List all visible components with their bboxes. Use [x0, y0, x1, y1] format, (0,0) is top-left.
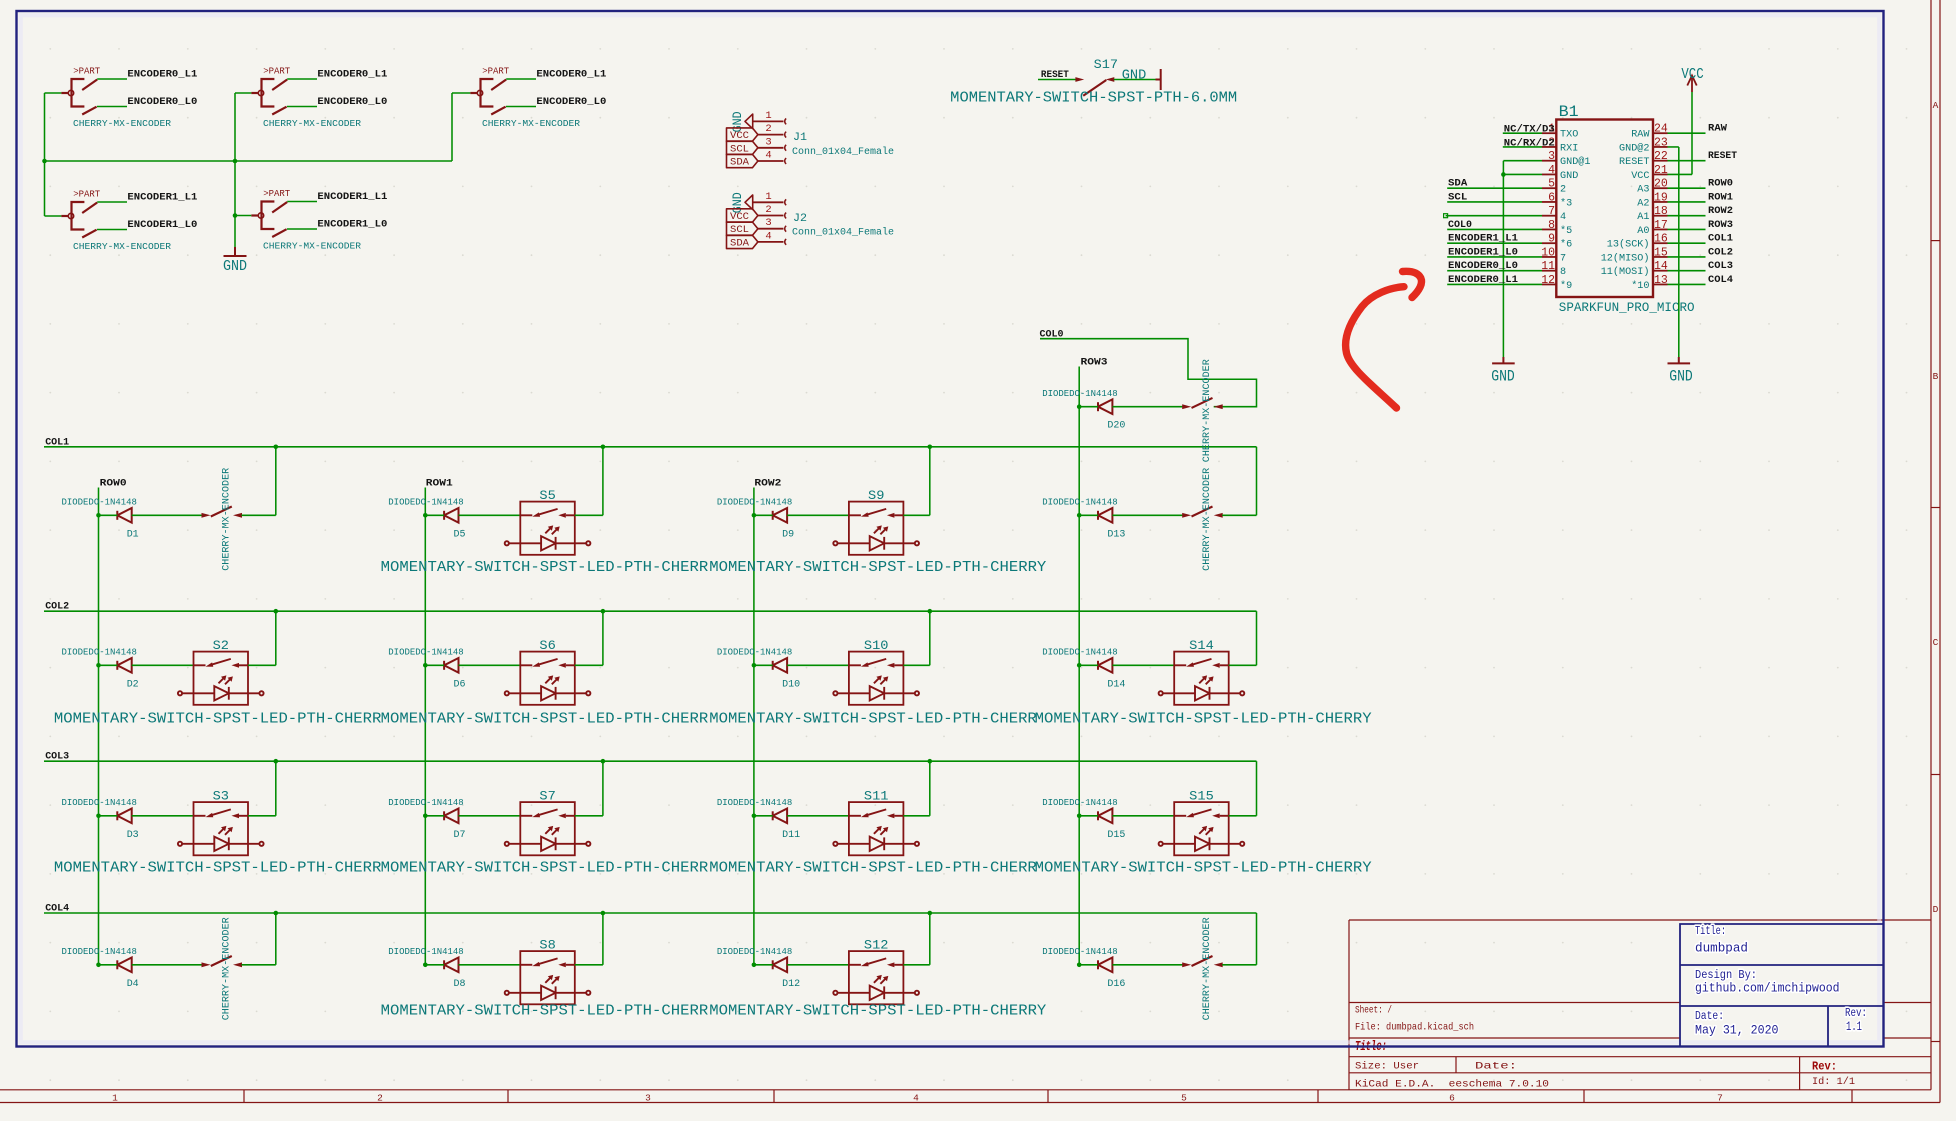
wire ENCODER1_L1 — [1447, 242, 1542, 244]
wire riser COL4 x3 — [1256, 913, 1258, 965]
svg-text:>PART: >PART — [263, 188, 290, 199]
svg-text:DIODEDO-1N4148: DIODEDO-1N4148 — [1042, 647, 1117, 658]
svg-text:>PART: >PART — [73, 66, 100, 77]
ground symbol B1 right GND — [1668, 357, 1691, 363]
svg-text:MOMENTARY-SWITCH-SPST-LED-PTH-: MOMENTARY-SWITCH-SPST-LED-PTH-CHERR — [381, 1003, 709, 1020]
svg-text:GND@1: GND@1 — [1560, 156, 1591, 168]
svg-text:ROW1: ROW1 — [426, 479, 453, 490]
svg-text:D8: D8 — [454, 979, 466, 990]
switch S10 body — [849, 652, 904, 705]
diode D2 — [117, 658, 131, 673]
junction ROW2 D12 — [752, 963, 757, 968]
wire encoder SW1 feed — [45, 92, 62, 94]
wire ROW2 vertical — [753, 488, 755, 965]
svg-text:Title:: Title: — [1695, 925, 1726, 938]
switch S15 body — [1174, 802, 1229, 855]
junction COL3 riser 2 — [928, 759, 933, 764]
wire RAW at B1 — [1668, 132, 1706, 134]
wire encoder SW5 feed — [235, 215, 251, 217]
junction ROW1 D7 — [423, 814, 428, 819]
svg-text:J2: J2 — [793, 213, 807, 225]
wire pin4 GND — [1503, 173, 1542, 175]
svg-text:SDA: SDA — [730, 238, 749, 249]
wire switch S8 to riser — [575, 964, 603, 966]
svg-text:DIODEDO-1N4148: DIODEDO-1N4148 — [62, 647, 137, 658]
wire ENCODER0_L0 — [1447, 270, 1542, 272]
wire D9 anode to switch — [787, 514, 849, 516]
svg-text:MOMENTARY-SWITCH-SPST-LED-PTH-: MOMENTARY-SWITCH-SPST-LED-PTH-CHERRY — [1035, 860, 1372, 877]
wire switch S10 to riser — [903, 664, 929, 666]
wire to label ENCODER1_L1 — [287, 201, 317, 203]
svg-text:S6: S6 — [539, 638, 555, 653]
switch S2 contacts — [194, 659, 249, 668]
svg-text:>PART: >PART — [73, 189, 100, 200]
switch S6 led — [505, 675, 591, 700]
svg-text:RAW: RAW — [1708, 124, 1727, 135]
svg-text:3: 3 — [765, 136, 771, 148]
svg-text:4: 4 — [1560, 211, 1566, 223]
wire D1 cathode — [99, 514, 118, 516]
wire riser COL3 x1 — [602, 761, 604, 816]
svg-text:S8: S8 — [539, 937, 555, 952]
switch S12 contacts — [849, 958, 904, 967]
svg-text:S10: S10 — [864, 638, 889, 653]
wire switch S9 to riser — [903, 514, 929, 516]
svg-text:ROW2: ROW2 — [1708, 206, 1733, 217]
wire COL1 horizontal — [44, 446, 1257, 448]
wire D8 anode to switch — [459, 964, 521, 966]
switch S9 contacts — [849, 509, 904, 518]
svg-text:10: 10 — [1541, 246, 1555, 259]
svg-text:Conn_01x04_Female: Conn_01x04_Female — [792, 227, 894, 239]
svg-text:6: 6 — [1449, 1092, 1455, 1103]
wire encoder mid vertical — [234, 93, 236, 247]
svg-text:A: A — [1933, 100, 1939, 111]
svg-text:SPARKFUN_PRO_MICRO: SPARKFUN_PRO_MICRO — [1559, 301, 1695, 315]
svg-text:D11: D11 — [782, 830, 800, 841]
svg-text:D3: D3 — [127, 830, 139, 841]
svg-text:19: 19 — [1654, 191, 1668, 204]
svg-text:ENCODER1_L0: ENCODER1_L0 — [127, 220, 197, 231]
svg-text:MOMENTARY-SWITCH-SPST-LED-PTH-: MOMENTARY-SWITCH-SPST-LED-PTH-CHERR — [381, 860, 709, 877]
svg-text:DIODEDO-1N4148: DIODEDO-1N4148 — [1042, 797, 1117, 808]
wire switch S2 to riser — [248, 664, 276, 666]
svg-text:GND: GND — [1669, 368, 1693, 386]
ic B1 right pin 18 A1 — [1653, 215, 1668, 217]
svg-text:RAW: RAW — [1631, 129, 1650, 141]
junction encoder SW5 feed — [233, 213, 238, 218]
svg-text:J1: J1 — [793, 132, 807, 144]
sheet frame right outer line — [1939, 0, 1941, 1103]
ic B1 left pin 11 8 — [1542, 270, 1556, 272]
switch S9 body — [849, 502, 904, 555]
ic B1 left pin 1 TXO — [1542, 132, 1556, 134]
sheet frame column ticks bottom — [243, 1090, 245, 1103]
svg-text:8: 8 — [1548, 219, 1555, 232]
svg-text:ROW2: ROW2 — [754, 479, 781, 490]
svg-text:DIODEDO-1N4148: DIODEDO-1N4148 — [1042, 946, 1117, 957]
wire COL0 B1 — [1447, 228, 1542, 230]
ground symbol B1 left GND — [1492, 357, 1515, 363]
ic B1 right pin 16 13(SCK) — [1653, 242, 1668, 244]
svg-text:4: 4 — [913, 1092, 919, 1103]
svg-text:16: 16 — [1654, 233, 1668, 246]
wire D14 cathode — [1079, 664, 1098, 666]
svg-text:CHERRY-MX-ENCODER: CHERRY-MX-ENCODER — [1202, 468, 1213, 571]
wire D4 cathode — [99, 964, 118, 966]
svg-text:COL4: COL4 — [1708, 275, 1733, 286]
svg-text:4: 4 — [1548, 164, 1555, 177]
connector J2 pin 3 — [758, 228, 784, 230]
svg-text:CHERRY-MX-ENCODER: CHERRY-MX-ENCODER — [1202, 917, 1213, 1020]
connector J1 pin 3 — [758, 147, 784, 149]
wire encoder switch to riser — [242, 964, 276, 966]
wire SDA — [1447, 187, 1542, 189]
svg-text:D7: D7 — [454, 830, 466, 841]
svg-text:GND: GND — [730, 111, 745, 132]
blue title box background — [1680, 924, 1884, 1047]
svg-text:ENCODER0_L0: ENCODER0_L0 — [127, 97, 197, 108]
wire switch S5 to riser — [575, 514, 603, 516]
svg-text:D10: D10 — [782, 679, 800, 690]
ic B1 left pin 8 *5 — [1542, 228, 1556, 230]
wire D10 cathode — [754, 664, 773, 666]
switch S7 contacts — [520, 809, 575, 818]
svg-text:SDA: SDA — [730, 158, 749, 169]
switch S7 led — [505, 826, 591, 851]
svg-text:Rev:: Rev: — [1812, 1061, 1837, 1074]
wire switch S14 to riser — [1229, 664, 1257, 666]
svg-text:S15: S15 — [1189, 788, 1214, 803]
encoder matrix switch contacts D20cell — [1182, 398, 1223, 409]
svg-text:7: 7 — [1548, 205, 1555, 218]
junction ROW3 D13 — [1077, 513, 1082, 518]
junction COL1 riser 0 — [274, 445, 279, 450]
wire D13 cathode — [1079, 514, 1098, 516]
wire RESET to S17 — [1038, 79, 1076, 81]
wire D15 anode to switch — [1112, 815, 1174, 817]
encoder matrix switch contacts D1cell — [202, 507, 243, 518]
svg-text:TXO: TXO — [1560, 129, 1578, 141]
svg-text:Date:: Date: — [1475, 1061, 1517, 1073]
svg-text:23: 23 — [1654, 136, 1668, 149]
switch S10 contacts — [849, 659, 904, 668]
wire D12 anode to switch — [787, 964, 849, 966]
svg-text:3: 3 — [645, 1092, 651, 1103]
junction COL2 riser 0 — [274, 609, 279, 614]
connector J2 global label SDA — [727, 235, 758, 248]
svg-text:D13: D13 — [1107, 529, 1125, 540]
svg-text:*3: *3 — [1560, 197, 1572, 209]
junction COL4 riser 1 — [601, 911, 606, 916]
junction ROW0 D2 — [96, 663, 101, 668]
svg-text:COL2: COL2 — [1708, 247, 1733, 258]
svg-text:DIODEDO-1N4148: DIODEDO-1N4148 — [388, 797, 463, 808]
wire D20 row junction wire — [1079, 406, 1098, 408]
svg-text:S11: S11 — [864, 788, 889, 803]
svg-text:22: 22 — [1654, 150, 1668, 163]
svg-text:B1: B1 — [1559, 103, 1579, 121]
svg-text:21: 21 — [1654, 164, 1668, 177]
switch S3 led — [178, 826, 264, 851]
wire encoder switch to riser — [1222, 964, 1256, 966]
wire D3 anode to switch — [132, 815, 194, 817]
wire D14 anode to switch — [1112, 664, 1174, 666]
junction ROW3 D15 — [1077, 814, 1082, 819]
svg-text:12(MISO): 12(MISO) — [1601, 252, 1650, 264]
wire D7 anode to switch — [459, 815, 521, 817]
wire pin3 GND — [1503, 160, 1542, 162]
svg-text:>PART: >PART — [263, 66, 290, 77]
svg-text:C: C — [1933, 637, 1939, 648]
encoder switch SW4 body — [61, 202, 97, 238]
svg-text:7: 7 — [1717, 1092, 1723, 1103]
svg-text:S12: S12 — [864, 937, 889, 952]
svg-text:GND: GND — [730, 192, 745, 213]
junction COL1 riser 2 — [928, 445, 933, 450]
wire riser COL3 x0 — [275, 761, 277, 816]
svg-text:ROW1: ROW1 — [1708, 192, 1733, 203]
switch S6 body — [520, 652, 575, 705]
svg-text:2: 2 — [765, 123, 771, 135]
wire S17 to GND — [1114, 79, 1156, 81]
diode D10 — [773, 658, 787, 673]
svg-text:A1: A1 — [1637, 211, 1649, 223]
wire D3 cathode — [99, 815, 118, 817]
diode D13 — [1098, 508, 1112, 523]
junction ROW2 D10 — [752, 663, 757, 668]
svg-text:D1: D1 — [127, 529, 139, 540]
svg-text:Design By:: Design By: — [1695, 969, 1757, 982]
ic B1 left pin 5 2 — [1542, 187, 1556, 189]
wire ROW3 at B1 — [1668, 228, 1706, 230]
junction ROW1 D8 — [423, 963, 428, 968]
wire riser COL2 x2 — [929, 611, 931, 665]
svg-text:A3: A3 — [1637, 184, 1649, 196]
switch S14 body — [1174, 652, 1229, 705]
ic B1 left pin 2 RXI — [1542, 146, 1556, 148]
ic B1 left pin 10 7 — [1542, 256, 1556, 258]
svg-text:D6: D6 — [454, 679, 466, 690]
wire switch S7 to riser — [575, 815, 603, 817]
diode D5 — [444, 508, 458, 523]
wire D7 cathode — [425, 815, 444, 817]
wire D6 cathode — [425, 664, 444, 666]
wire riser COL4 x2 — [929, 913, 931, 965]
svg-text:4: 4 — [765, 150, 771, 162]
junction COL2 riser 1 — [601, 609, 606, 614]
svg-text:D14: D14 — [1107, 679, 1125, 690]
switch S15 led — [1159, 826, 1245, 851]
ic B1 left pin 9 *6 — [1542, 242, 1556, 244]
diode D11 — [773, 809, 787, 824]
svg-text:17: 17 — [1654, 219, 1668, 232]
svg-text:ENCODER0_L1: ENCODER0_L1 — [536, 70, 606, 81]
wire switch S3 to riser — [248, 815, 276, 817]
wire to label ENCODER1_L1 — [97, 201, 127, 203]
junction COL4 riser 0 — [274, 911, 279, 916]
svg-text:ENCODER0_L1: ENCODER0_L1 — [317, 70, 387, 81]
blue title box outline — [1680, 924, 1884, 1047]
wire to label ENCODER0_L0 — [287, 106, 317, 108]
wire encoder SW4 feed — [45, 215, 62, 217]
svg-text:MOMENTARY-SWITCH-SPST-LED-PTH-: MOMENTARY-SWITCH-SPST-LED-PTH-CHERR — [54, 711, 382, 728]
wire B1 GND vertical left — [1502, 161, 1504, 357]
encoder switch SW2 body — [251, 79, 287, 115]
svg-text:ENCODER1_L1: ENCODER1_L1 — [317, 192, 387, 203]
power symbol VCC — [1687, 76, 1696, 93]
svg-text:S17: S17 — [1094, 57, 1118, 72]
wire switch S11 to riser — [903, 815, 929, 817]
svg-text:D4: D4 — [127, 979, 139, 990]
wire riser COL3 x2 — [929, 761, 931, 816]
ic B1 left pin 3 GND@1 — [1542, 160, 1556, 162]
wire to label ENCODER0_L1 — [506, 78, 536, 80]
wire ENCODER0_L1 — [1447, 283, 1542, 285]
svg-text:12: 12 — [1541, 274, 1555, 287]
ic B1 right pin 19 A2 — [1653, 201, 1668, 203]
ic B1 left pin 12 *9 — [1542, 283, 1556, 285]
svg-text:1: 1 — [765, 191, 771, 203]
wire to label ENCODER0_L1 — [97, 78, 127, 80]
svg-text:DIODEDO-1N4148: DIODEDO-1N4148 — [717, 647, 792, 658]
switch S15 contacts — [1174, 809, 1229, 818]
switch S9 led — [833, 525, 919, 550]
wire B1 GND@2 down — [1668, 146, 1679, 148]
junction ROW2 D9 — [752, 513, 757, 518]
junction ROW1 D5 — [423, 513, 428, 518]
svg-text:2: 2 — [765, 204, 771, 216]
svg-text:github.com/imchipwood: github.com/imchipwood — [1695, 982, 1840, 996]
svg-text:ROW3: ROW3 — [1708, 220, 1733, 231]
wire D20 anode — [1112, 406, 1183, 408]
connector J1 pin 2 — [758, 134, 784, 136]
wire D5 anode to switch — [459, 514, 521, 516]
svg-text:B: B — [1933, 371, 1939, 382]
sheet frame bottom inner line — [0, 1089, 1931, 1091]
svg-text:MOMENTARY-SWITCH-SPST-LED-PTH-: MOMENTARY-SWITCH-SPST-LED-PTH-CHERRY — [709, 1003, 1046, 1020]
svg-text:*6: *6 — [1560, 239, 1572, 251]
svg-text:Rev:: Rev: — [1845, 1007, 1867, 1020]
switch S3 body — [194, 802, 249, 855]
wire COL3 at B1 — [1668, 270, 1706, 272]
switch S11 led — [833, 826, 919, 851]
wire D8 cathode — [425, 964, 444, 966]
wire riser COL2 x3 — [1256, 611, 1258, 665]
ic B1 right pin 20 A3 — [1653, 187, 1668, 189]
ic B1 right pin 24 RAW — [1653, 132, 1668, 134]
svg-text:5: 5 — [1181, 1092, 1187, 1103]
svg-text:DIODEDO-1N4148: DIODEDO-1N4148 — [62, 497, 137, 508]
svg-text:3: 3 — [765, 217, 771, 229]
svg-text:13(SCK): 13(SCK) — [1607, 239, 1650, 251]
connector J2 pin 1 — [753, 201, 784, 203]
wire COL4 at B1 — [1668, 283, 1706, 285]
wire to label ENCODER0_L1 — [287, 78, 317, 80]
wire D9 cathode — [754, 514, 773, 516]
svg-text:D5: D5 — [454, 529, 466, 540]
wire D11 anode to switch — [787, 815, 849, 817]
svg-text:D15: D15 — [1107, 830, 1125, 841]
switch S12 body — [849, 951, 904, 1004]
wire pin7 stub — [1446, 215, 1542, 217]
wire riser COL2 x1 — [602, 611, 604, 665]
wire riser COL1 x2 — [929, 447, 931, 516]
junction COL2 riser 2 — [928, 609, 933, 614]
svg-text:GND@2: GND@2 — [1619, 142, 1650, 154]
svg-text:CHERRY-MX-ENCODER: CHERRY-MX-ENCODER — [1202, 359, 1213, 462]
svg-text:14: 14 — [1654, 260, 1668, 273]
svg-text:DIODEDO-1N4148: DIODEDO-1N4148 — [62, 946, 137, 957]
ic B1 right pin 15 12(MISO) — [1653, 256, 1668, 258]
svg-text:*9: *9 — [1560, 280, 1572, 292]
switch S7 body — [520, 802, 575, 855]
svg-text:D: D — [1933, 904, 1939, 915]
diode D1 — [117, 508, 131, 523]
connector J2 pin 2 — [758, 215, 784, 217]
svg-text:DIODEDO-1N4148: DIODEDO-1N4148 — [717, 797, 792, 808]
switch S8 contacts — [520, 958, 575, 967]
connector J1 pin 1 — [753, 120, 784, 122]
sheet frame right inner line — [1930, 0, 1932, 1090]
connector J2 global label VCC — [727, 209, 758, 222]
wire SCL — [1447, 201, 1542, 203]
svg-text:DIODEDO-1N4148: DIODEDO-1N4148 — [1042, 388, 1117, 399]
wire to label ENCODER1_L0 — [97, 229, 127, 231]
wire encoder bus left vertical — [44, 93, 46, 216]
junction ROW3 D20 — [1077, 404, 1082, 409]
switch S2 body — [194, 652, 249, 705]
svg-text:COL1: COL1 — [1708, 234, 1733, 245]
wire D2 anode to switch — [132, 664, 194, 666]
ic B1 right pin 23 GND@2 — [1653, 146, 1668, 148]
wire riser COL1 x0 — [275, 447, 277, 516]
svg-text:DIODEDO-1N4148: DIODEDO-1N4148 — [717, 946, 792, 957]
connector J1 global label SDA — [727, 154, 758, 167]
svg-text:5: 5 — [1548, 178, 1555, 191]
wire switch S12 to riser — [903, 964, 929, 966]
wire D15 cathode — [1079, 815, 1098, 817]
wire ROW3 vertical — [1078, 367, 1080, 965]
svg-text:GND: GND — [1122, 68, 1147, 84]
svg-text:DIODEDO-1N4148: DIODEDO-1N4148 — [717, 497, 792, 508]
junction COL4 riser 2 — [928, 911, 933, 916]
diode D8 — [444, 958, 458, 973]
encoder matrix switch contacts D13cell — [1182, 507, 1223, 518]
switch S12 led — [833, 975, 919, 1000]
switch S11 body — [849, 802, 904, 855]
svg-text:CHERRY-MX-ENCODER: CHERRY-MX-ENCODER — [482, 118, 580, 129]
diode D16 — [1098, 958, 1112, 973]
svg-text:D20: D20 — [1107, 421, 1125, 432]
wire ROW1 vertical — [424, 488, 426, 965]
svg-text:DIODEDO-1N4148: DIODEDO-1N4148 — [388, 497, 463, 508]
sheet frame bottom outer line — [0, 1102, 1940, 1104]
svg-text:D12: D12 — [782, 979, 800, 990]
svg-text:ENCODER0_L0: ENCODER0_L0 — [536, 97, 606, 108]
wire COL3 horizontal — [44, 760, 1257, 762]
connector J1 global label SCL — [727, 141, 758, 154]
svg-text:7: 7 — [1560, 252, 1566, 264]
svg-text:Sheet: /: Sheet: / — [1355, 1005, 1392, 1017]
encoder switch SW5 body — [251, 202, 287, 238]
svg-text:dumbpad: dumbpad — [1695, 942, 1748, 956]
wire pin1 — [1503, 132, 1542, 134]
svg-text:9: 9 — [1548, 233, 1555, 246]
diode D4 — [117, 958, 131, 973]
svg-text:2: 2 — [377, 1092, 383, 1103]
junction ROW3 D14 — [1077, 663, 1082, 668]
